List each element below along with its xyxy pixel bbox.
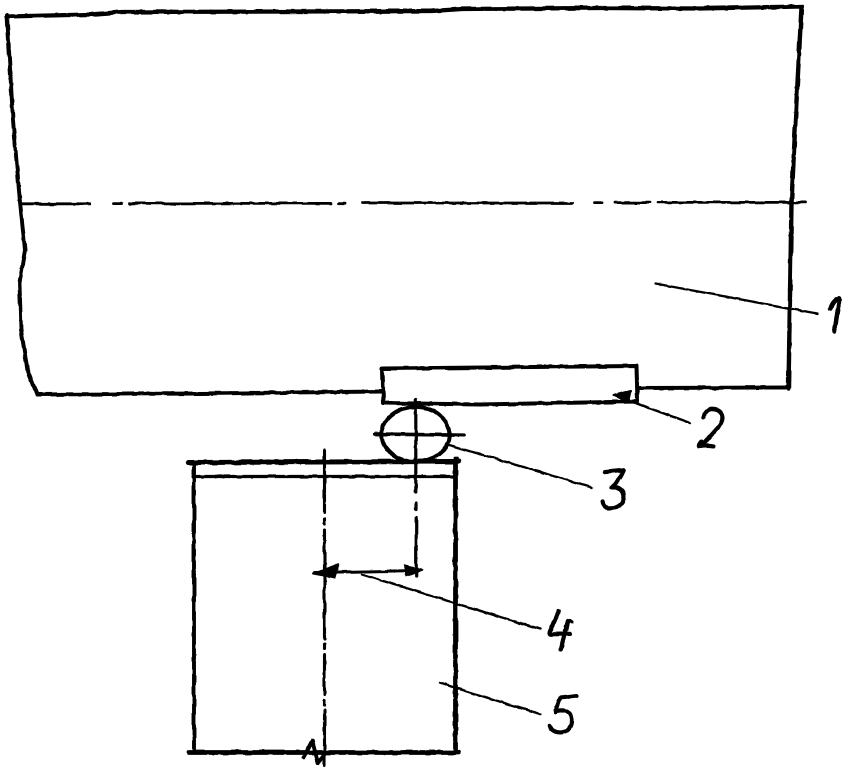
horizontal center line of body xyxy=(20,202,806,203)
roller crosshair horizontal xyxy=(375,434,464,435)
roller vertical axis (dash-dot) xyxy=(414,400,418,576)
block top edge xyxy=(188,462,458,463)
workpiece body 1: top edge xyxy=(7,7,802,17)
block bottom edge xyxy=(189,750,459,755)
block top second line xyxy=(193,475,455,478)
leader line 5 xyxy=(440,683,540,714)
break squiggle on center line at block bottom xyxy=(304,741,327,764)
label 1 xyxy=(831,299,840,332)
workpiece body 1: bottom edge left part xyxy=(37,392,382,395)
label 4 xyxy=(550,612,572,650)
workpiece body 1: left edge xyxy=(7,15,37,395)
leader line 4 xyxy=(362,575,540,630)
label 3 xyxy=(603,470,624,508)
leader line 1 xyxy=(655,284,817,314)
leader line 3 xyxy=(446,444,592,488)
leader line 2 xyxy=(623,399,690,424)
plate 2 xyxy=(383,366,638,405)
block vertical center line (dash-dot) xyxy=(323,451,326,766)
dimension arrow left xyxy=(314,564,340,577)
label 5 xyxy=(550,696,577,733)
dimension arrow right xyxy=(405,566,423,576)
leader 2 arrowhead xyxy=(614,391,632,403)
workpiece body 1: bottom edge right part xyxy=(640,386,789,390)
block left edge xyxy=(192,463,196,753)
dimension line 4 xyxy=(315,571,419,573)
label 2 xyxy=(699,409,723,446)
block right edge xyxy=(453,459,458,753)
roller 3 xyxy=(382,407,450,462)
workpiece body 1: right edge xyxy=(789,8,802,389)
